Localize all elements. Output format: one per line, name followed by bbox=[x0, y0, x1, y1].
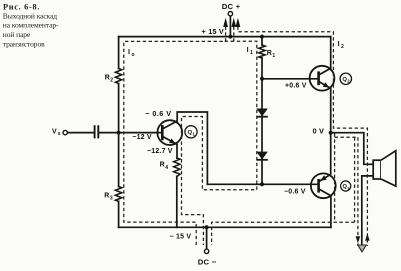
current arrow up I2 at DC+ bbox=[236, 18, 241, 27]
svg-text:ной паре: ной паре bbox=[3, 30, 31, 39]
svg-text:Выходной каскад: Выходной каскад bbox=[3, 12, 57, 21]
svg-text:R: R bbox=[104, 193, 109, 200]
current arrow up speaker return bbox=[365, 234, 370, 241]
wire dashed below 0V horizontal bbox=[335, 136, 358, 138]
DC+ terminal bbox=[228, 12, 232, 16]
svg-text:1: 1 bbox=[250, 50, 253, 56]
wire R1 top lead bbox=[261, 37, 263, 45]
svg-text:− 15 V: − 15 V bbox=[170, 233, 192, 240]
label I2 bbox=[338, 39, 344, 50]
svg-text:I: I bbox=[247, 45, 249, 54]
label R4 bbox=[160, 162, 169, 171]
wire dashed junction segment below DC+ bbox=[225, 40, 235, 42]
node Q2 base junction bbox=[260, 77, 264, 81]
wire left rail lower bbox=[118, 201, 120, 227]
svg-text:+ 15 V: + 15 V bbox=[202, 27, 225, 36]
resistor R2 bbox=[115, 69, 121, 84]
DC- terminal bbox=[204, 249, 208, 253]
figure caption bbox=[3, 3, 59, 49]
wire R4 to bottom rail bbox=[176, 176, 178, 227]
node Q1 base junction bbox=[117, 131, 121, 135]
svg-text:V: V bbox=[52, 128, 57, 135]
wire left rail upper bbox=[118, 37, 120, 69]
svg-text:I: I bbox=[338, 39, 340, 48]
svg-text:−0.6 V: −0.6 V bbox=[284, 188, 306, 195]
svg-text:на комплементар-: на комплементар- bbox=[3, 21, 59, 30]
svg-text:1: 1 bbox=[272, 53, 275, 59]
Q1 designator bbox=[185, 126, 197, 138]
wire Q1 emitter to R4 bbox=[176, 144, 178, 158]
wire Q2 base lead bbox=[262, 78, 319, 80]
resistor R4 bbox=[174, 158, 180, 176]
wire dashed loop I2 bbox=[238, 27, 368, 247]
wire left rail middle bbox=[118, 84, 120, 187]
wire Q1 collector route bbox=[177, 112, 207, 184]
Q3 designator bbox=[341, 181, 351, 191]
wire Q3 collector to bottom rail bbox=[330, 196, 332, 228]
svg-text:R: R bbox=[160, 162, 165, 169]
svg-text:−12.7 V: −12.7 V bbox=[147, 148, 173, 155]
transistor Q2 bbox=[310, 66, 335, 91]
wire dashed speaker return bbox=[357, 137, 359, 246]
svg-text:R: R bbox=[105, 74, 110, 81]
svg-text:−12 V: −12 V bbox=[132, 134, 152, 141]
svg-text:I: I bbox=[128, 47, 130, 56]
label R2 bbox=[105, 74, 114, 83]
svg-text:− 0.6 V: − 0.6 V bbox=[145, 109, 171, 118]
wire top rail bbox=[119, 36, 331, 38]
label R3 bbox=[104, 193, 113, 202]
wire dashed loop I1 bbox=[182, 27, 257, 246]
svg-text:3: 3 bbox=[110, 196, 113, 202]
label R1 bbox=[267, 50, 276, 59]
wire DC+ lead bbox=[229, 16, 231, 37]
Q2 designator bbox=[340, 73, 351, 84]
current arrow up I0 at DC+ bbox=[223, 18, 228, 27]
wire bottom rail bbox=[119, 226, 331, 228]
resistor R3 bbox=[115, 187, 121, 202]
label Vs bbox=[52, 128, 61, 137]
svg-text:4: 4 bbox=[165, 165, 168, 171]
input terminal Vs bbox=[63, 130, 67, 134]
output return arrow (grey) bbox=[358, 245, 366, 252]
svg-text:Рис. 6-8.: Рис. 6-8. bbox=[3, 3, 40, 12]
svg-text:o: o bbox=[132, 52, 135, 58]
svg-text:DC −: DC − bbox=[198, 258, 217, 267]
wire dashed speaker inner vertical bbox=[354, 137, 356, 222]
wire capacitor to Q1 base node bbox=[99, 132, 119, 134]
node R1 top junction bbox=[260, 35, 264, 39]
svg-text:2: 2 bbox=[341, 44, 344, 50]
diode D1 bbox=[256, 109, 267, 117]
label I1 bbox=[247, 45, 253, 56]
wire dashed Q3 loop vertical bbox=[334, 134, 336, 223]
svg-text:0 V: 0 V bbox=[312, 127, 324, 136]
wire 0V node to speaker upper terminal bbox=[331, 133, 374, 165]
current arrow down speaker return bbox=[356, 236, 361, 243]
wire Q2 emitter to 0V node bbox=[330, 88, 332, 132]
svg-text:2: 2 bbox=[110, 77, 113, 83]
svg-text:s: s bbox=[58, 131, 61, 137]
wire node B to Q3 base bbox=[207, 183, 318, 185]
wire input to capacitor bbox=[67, 132, 94, 134]
wire speaker lower terminal return bbox=[362, 176, 374, 245]
wire DC- lead bbox=[206, 227, 208, 249]
loudspeaker LS bbox=[373, 151, 396, 186]
wire Q1 base lead bbox=[119, 132, 163, 134]
node 0V junction bbox=[329, 131, 333, 135]
wire dashed loop I0 bbox=[124, 27, 226, 246]
label I0 bbox=[128, 47, 135, 58]
current arrow up I1 at DC+ bbox=[231, 18, 236, 27]
wire R1 to diode chain to node B bbox=[261, 58, 263, 184]
transistor Q1 bbox=[157, 120, 182, 145]
svg-text:+0.6 V: +0.6 V bbox=[285, 83, 307, 90]
wire dashed Q3 loop to DC- bbox=[212, 222, 355, 245]
svg-text:R: R bbox=[267, 50, 272, 57]
node DC+ junction bbox=[228, 35, 232, 39]
wire 0V node to Q3 emitter bbox=[330, 133, 332, 175]
resistor R1 bbox=[259, 45, 265, 58]
capacitor C bbox=[95, 126, 99, 137]
node B diode bottom junction bbox=[260, 182, 264, 186]
transistor Q3 bbox=[311, 173, 336, 198]
svg-text:DC +: DC + bbox=[222, 2, 241, 11]
node DC- junction bbox=[205, 225, 209, 229]
diode D2 bbox=[256, 152, 267, 160]
svg-text:транзисторов: транзисторов bbox=[3, 39, 45, 48]
wire Q2 collector to top rail bbox=[330, 37, 332, 69]
